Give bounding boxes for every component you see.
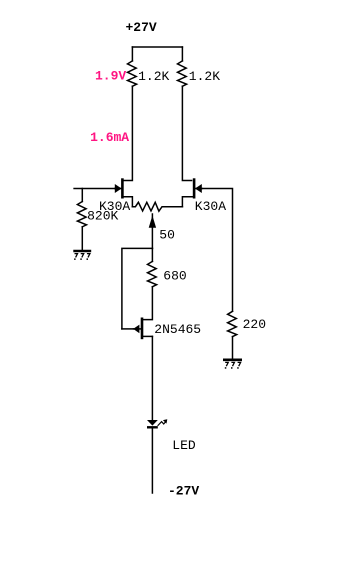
wire wiper junction to left loop	[122, 248, 152, 329]
wire gate to R3	[81, 189, 83, 202]
wire right rail drop	[181, 47, 183, 61]
svg-text:LED: LED	[172, 438, 196, 453]
wire left rail drop	[131, 47, 133, 61]
wire R6 to ground	[232, 337, 234, 359]
svg-text:680: 680	[163, 268, 186, 283]
resistor R5 680	[148, 261, 157, 286]
svg-text:1.2K: 1.2K	[189, 69, 220, 84]
ground GND1	[73, 251, 91, 260]
wire Q3 gate feed	[122, 328, 133, 330]
transistor Q3 2N5465 JFET	[133, 318, 152, 340]
resistor R1 1.2K left	[128, 61, 137, 86]
svg-text:2N5465: 2N5465	[154, 322, 201, 337]
wiper arrow of R4	[149, 214, 156, 248]
wire R5 to Q3 drain	[143, 287, 152, 320]
transistor Q2 K30A right JFET	[182, 178, 202, 206]
wire left branch to Q1 drain	[124, 86, 133, 180]
wire Q3 source to LED	[151, 336, 153, 419]
transistor Q1 K30A left JFET	[115, 178, 133, 206]
resistor R2 1.2K right	[178, 61, 187, 86]
svg-text:-27V: -27V	[168, 484, 199, 499]
resistor R4 50 (horizontal)	[132, 202, 182, 211]
diode D1 LED	[147, 419, 167, 427]
wire right branch to Q2 drain	[182, 86, 191, 180]
wire R3 to ground	[81, 227, 83, 250]
svg-text:+27V: +27V	[126, 20, 157, 35]
svg-text:K30A: K30A	[195, 199, 226, 214]
resistor R3 820K	[77, 202, 86, 227]
svg-text:1.6mA: 1.6mA	[90, 130, 129, 145]
svg-text:820K: 820K	[87, 209, 118, 224]
wire wiper to R5	[151, 248, 153, 261]
wire Q2 gate to R6	[202, 189, 233, 312]
wire Q1 gate	[74, 188, 115, 190]
wire LED to -27V	[151, 429, 153, 494]
wire top rail	[132, 46, 182, 48]
resistor R6 220	[228, 311, 237, 336]
svg-text:1.2K: 1.2K	[138, 69, 169, 84]
ground GND2	[223, 360, 242, 369]
svg-text:220: 220	[243, 317, 266, 332]
svg-text:1.9V: 1.9V	[95, 68, 126, 83]
svg-text:50: 50	[159, 228, 175, 243]
